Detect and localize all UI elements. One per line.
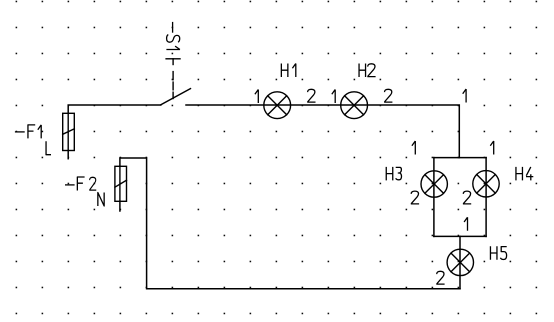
label H5	[490, 246, 506, 259]
node 1 at top right corner	[463, 89, 466, 103]
pin 2 of H3	[411, 191, 419, 204]
wire: loop left branch	[433, 158, 435, 237]
fuse F2	[115, 166, 127, 201]
label N (neutral terminal of F2)	[98, 193, 104, 207]
pin 2 of H2	[384, 89, 392, 102]
pin 2 of H4	[463, 191, 471, 204]
label -S1 (rotated 90deg)	[166, 22, 180, 50]
pin 1 of H1	[255, 90, 258, 104]
texts drawn as thin stroke glyphs (CAD style)	[15, 22, 533, 284]
lamp H5	[447, 249, 473, 275]
wire: parallel loop top	[434, 157, 486, 159]
pin 2 of H5	[436, 271, 444, 284]
label L (line terminal of F1)	[46, 141, 51, 155]
wire: bottom rail to left riser and jog to F2	[120, 158, 460, 289]
wire: F2 bottom stub (N terminal)	[119, 201, 121, 211]
label H3	[386, 167, 401, 181]
lamp H3	[421, 171, 447, 197]
wire: F1 bottom stub (L terminal)	[67, 151, 69, 159]
pin 1 of H3	[412, 141, 415, 155]
label -F1	[15, 125, 41, 138]
label H2	[359, 64, 376, 78]
switch S1 lever	[161, 89, 191, 105]
wire: switch to H1,H2 and down at right corner	[186, 105, 459, 158]
wire: L feed from F1 up and right to switch	[68, 105, 161, 113]
fuse F1	[63, 113, 75, 150]
wire: loop bottom to H5 and down	[459, 236, 461, 288]
switch S1 manual actuator (T head and dashed link)	[166, 59, 180, 99]
wire: parallel loop bottom	[434, 235, 486, 237]
lamp H4	[473, 171, 499, 197]
pin 1 of H2	[332, 90, 335, 104]
label -F2	[65, 177, 96, 191]
label H4	[516, 167, 533, 181]
lamp H1	[264, 92, 291, 119]
pin 2 of H1	[307, 89, 315, 102]
lamp H2	[341, 92, 368, 119]
pin 1 of H5	[464, 217, 467, 231]
label H1	[281, 64, 295, 78]
pin 1 of H4	[490, 141, 493, 155]
wire: loop right branch	[485, 158, 487, 237]
